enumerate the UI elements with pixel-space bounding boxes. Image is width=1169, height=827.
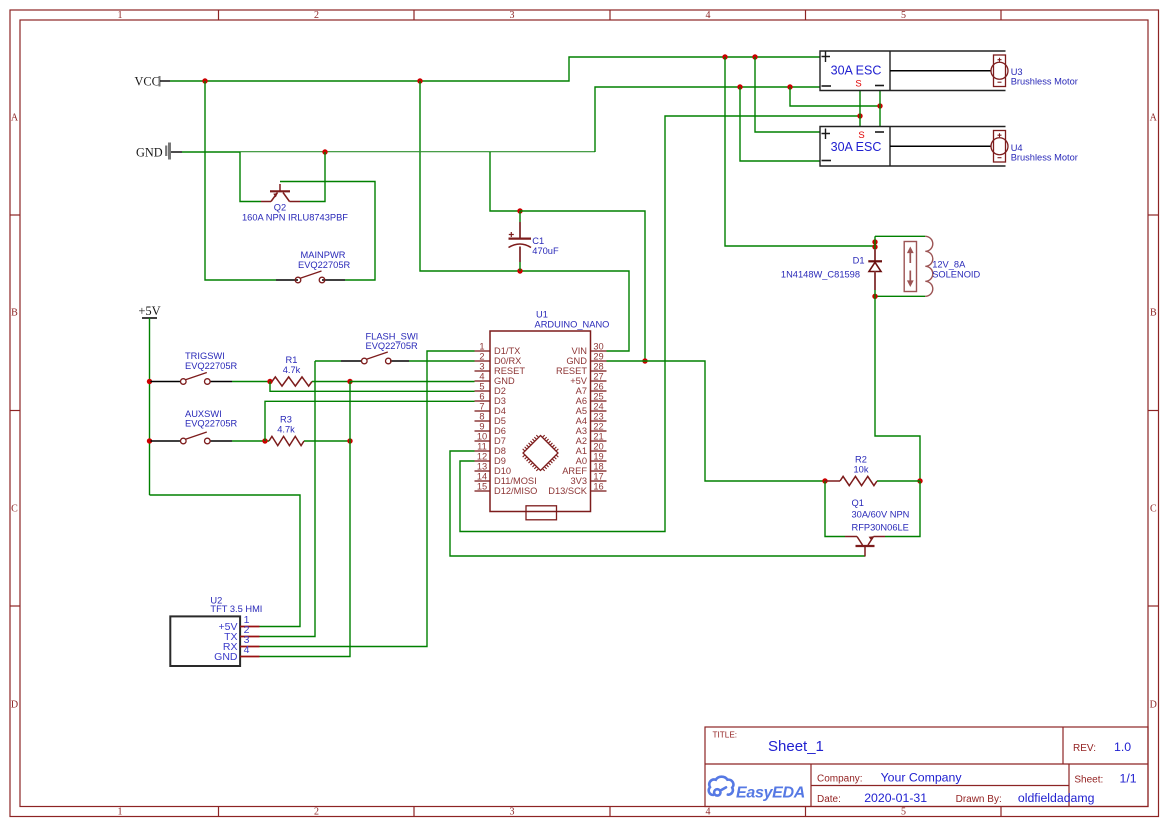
pin 18 AREF [562,462,606,477]
label C1 [532,236,559,256]
pin 28 RESET [556,362,607,377]
svg-text:GND: GND [136,146,163,160]
svg-text:A: A [1150,113,1158,124]
wire AUXSWI left stub [151,440,181,442]
svg-text:VIN: VIN [572,346,588,356]
wire VCC branch to solenoid [725,57,875,246]
svg-text:D10: D10 [494,466,511,476]
svg-text:4: 4 [479,372,484,382]
svg-text:VCC: VCC [135,75,160,89]
svg-text:RESET: RESET [556,366,587,376]
EasyEDA logo [709,777,805,802]
svg-text:3: 3 [510,10,515,21]
resistor R2 [840,455,877,486]
node node ESC2 minus branch [737,84,742,89]
svg-text:TFT 3.5 HMI: TFT 3.5 HMI [210,604,262,614]
svg-text:A3: A3 [576,426,587,436]
capacitor C1 [509,211,532,271]
wire VCC branch to ESC2 + [755,57,820,132]
svg-text:4: 4 [706,10,711,21]
svg-text:D13/SCK: D13/SCK [548,486,588,496]
svg-text:1: 1 [479,342,484,352]
wire D8 to Q1 base [450,451,865,556]
label U1 [535,310,610,330]
ESC module U6 bottom ESC [170,127,1148,807]
resistor R1 [272,355,312,386]
svg-text:R1: R1 [286,355,298,365]
pin 1 U2 +5V [219,614,260,633]
svg-text:13: 13 [477,462,487,472]
pin 11 D8 [475,442,506,457]
svg-text:5: 5 [479,382,484,392]
svg-text:11: 11 [477,442,487,452]
svg-text:D4: D4 [494,406,506,416]
svg-text:Q1: Q1 [852,498,864,508]
svg-text:U1: U1 [536,310,548,320]
svg-text:A6: A6 [576,396,587,406]
switch TRIGSWI [181,373,211,385]
node node solenoid bottom [872,294,877,299]
ESC module U5 top ESC [170,51,1148,807]
svg-text:C: C [11,504,18,515]
pin 29 GND [566,352,606,367]
svg-text:1.0: 1.0 [1114,740,1131,754]
svg-text:A5: A5 [576,406,587,416]
node VCC junction 1 [202,78,207,83]
U1 chip glyph [523,435,559,471]
pin 26 A7 [576,382,607,397]
wire VCC to ESC1 + [170,57,820,81]
svg-text:4: 4 [244,644,250,656]
svg-text:R2: R2 [855,455,867,465]
wire GND from port [182,151,240,153]
pin 13 D10 [475,462,512,477]
wire GND up to ESC row [595,87,820,152]
node node GND R3 [347,438,352,443]
svg-text:25: 25 [593,392,603,402]
svg-text:30A ESC: 30A ESC [831,64,882,78]
svg-text:R3: R3 [280,415,292,425]
svg-text:D12/MISO: D12/MISO [494,486,537,496]
svg-text:C1: C1 [532,236,544,246]
wire D3 wire [265,401,475,441]
wire GND branch ESC minus pins [790,87,880,106]
pin 10 D7 [475,432,506,447]
svg-text:6: 6 [479,392,484,402]
svg-text:RESET: RESET [494,366,525,376]
switch AUXSWI [181,432,211,444]
node node C1 top [517,208,522,213]
wire AUXSWI right stub [210,440,233,442]
wire AUXSWI to R3 [232,440,269,442]
svg-text:D8: D8 [494,446,506,456]
svg-text:10: 10 [477,432,487,442]
wire solenoid to R2 right [875,296,920,481]
node node R2 left [822,478,827,483]
pin 24 A5 [576,402,607,417]
pin 17 3V3 [570,472,606,487]
diode D1 [868,249,882,296]
pin 15 D12/MISO [475,482,538,497]
svg-text:GND: GND [494,376,515,386]
node node ESC minus branch [787,84,792,89]
svg-text:A2: A2 [576,436,587,446]
svg-text:MAINPWR: MAINPWR [301,250,346,260]
pin 3 RESET [475,362,526,377]
svg-text:28: 28 [593,362,603,372]
svg-text:S: S [855,79,861,90]
svg-text:D2: D2 [494,386,506,396]
wire Q2 base to MAINPWR [280,182,375,281]
pin 30 VIN [572,342,607,357]
wire GND branch to C1 top [490,152,520,211]
svg-text:FLASH_SWI: FLASH_SWI [366,332,419,342]
wire pin29 stub wire [607,360,646,362]
svg-text:EVQ22705R: EVQ22705R [366,341,418,351]
wire GND horizontal faded [240,151,595,153]
svg-text:19: 19 [593,452,603,462]
wire VCC to MAINPWR [205,81,276,280]
wire GND to Q2 emitter [240,152,261,202]
wire FLASH to pin2 [409,360,475,362]
svg-text:B: B [11,308,18,319]
wire ESC1 minus pin wire [879,91,881,106]
pin 22 A3 [576,422,607,437]
label solenoid [932,259,980,279]
svg-text:Brushless Motor: Brushless Motor [1011,77,1078,87]
wire R2 right to Q1 collector [885,481,920,537]
svg-text:D5: D5 [494,416,506,426]
pin 3 U2 RX [223,634,260,653]
svg-text:D1: D1 [853,256,865,266]
wire R1 right wire [312,381,350,383]
U1 usb connector [526,506,557,520]
node node D2 branch [267,379,272,384]
wire VCC to C1 bottom rail [420,81,520,271]
svg-text:18: 18 [593,462,603,472]
wire +5V to U2 pin1 [150,495,301,627]
pin 4 U2 GND [214,644,259,663]
wire FLASH right stub [390,360,409,362]
wire FLASH to U2 TX [260,361,316,637]
svg-text:+5V: +5V [138,304,160,318]
label U4 [1011,143,1078,162]
svg-text:SOLENOID: SOLENOID [932,269,980,279]
svg-text:D0/RX: D0/RX [494,356,521,366]
svg-text:oldfieldadamg: oldfieldadamg [1018,791,1095,805]
pin 19 A0 [576,452,607,467]
wire ESC2 S pin wire [859,116,861,126]
node GND junction Q2 collector [322,149,327,154]
motor U4 [890,131,1008,163]
wire R2 left pin [825,480,840,482]
svg-text:D11/MOSI: D11/MOSI [494,476,537,486]
svg-text:Q2: Q2 [274,203,286,213]
svg-text:2: 2 [314,10,319,21]
svg-text:2: 2 [314,807,319,818]
wire GND branch ESC2 lower [740,87,820,161]
svg-text:+5V: +5V [570,376,588,386]
svg-text:4.7k: 4.7k [277,424,295,434]
svg-text:AREF: AREF [562,466,587,476]
svg-text:Date:: Date: [817,794,841,805]
transistor Q2 [261,184,300,202]
svg-text:D: D [1150,700,1157,711]
wire solenoid bottom rail [875,295,925,297]
svg-text:17: 17 [593,472,603,482]
wire FLASH left wire [315,360,341,362]
node node GND pin29 [642,358,647,363]
label U3 [1011,67,1078,86]
wire R1 to pin4 GND [350,381,475,383]
label Q1 [852,498,910,533]
svg-text:Your Company: Your Company [881,770,963,784]
svg-text:14: 14 [477,472,487,482]
svg-text:D1/TX: D1/TX [494,346,520,356]
net port +5V [138,304,160,318]
wire GND pin29 to R2 [645,361,825,481]
pin 25 A6 [576,392,607,407]
svg-text:30: 30 [593,342,603,352]
wire pin1 TX to U2 RX [260,351,475,647]
wire TRIGSWI to R1 [232,381,272,383]
svg-text:30A ESC: 30A ESC [831,140,882,154]
switch MAINPWR [295,271,325,283]
node node R2 right [917,478,922,483]
svg-text:15: 15 [477,482,487,492]
net port VCC [135,75,171,89]
node node ESC2 plus branch [752,54,757,59]
svg-text:C: C [1150,504,1157,515]
svg-text:4.7k: 4.7k [283,365,301,375]
title block [705,727,1148,807]
pin 2 D0/RX [475,352,522,367]
pin 21 A2 [576,432,607,447]
svg-text:TRIGSWI: TRIGSWI [185,351,225,361]
node node GND R1 [347,379,352,384]
wire +5V rail [149,318,151,495]
svg-text:8: 8 [479,412,484,422]
svg-text:D3: D3 [494,396,506,406]
node node aux row [147,438,152,443]
pin 1 D1/TX [475,342,521,357]
wire Q2 collector to GND junction [300,152,325,202]
svg-text:A: A [11,113,19,124]
svg-text:2020-01-31: 2020-01-31 [864,791,927,805]
svg-text:5: 5 [901,807,906,818]
svg-text:A0: A0 [576,456,587,466]
svg-text:5: 5 [901,10,906,21]
node node solenoid top b [872,244,877,249]
svg-text:470uF: 470uF [532,246,559,256]
svg-text:TITLE:: TITLE: [713,731,738,740]
wire MAINPWR left stub [276,279,298,281]
wire TRIGSWI left stub [151,381,181,383]
svg-text:REV:: REV: [1073,743,1096,754]
svg-text:1/1: 1/1 [1120,772,1137,786]
svg-text:20: 20 [593,442,603,452]
svg-text:26: 26 [593,382,603,392]
label Q2 [242,203,348,223]
wire R3 right wire [304,440,350,442]
svg-text:A4: A4 [576,416,587,426]
svg-text:10k: 10k [854,464,869,474]
pin 27 +5V [570,372,606,387]
label D1 [781,256,865,280]
wire ESC1 S pin wire [859,91,861,116]
wire TRIGSWI right stub [210,381,233,383]
pin 6 D3 [475,392,506,407]
svg-text:22: 22 [593,422,603,432]
pin 12 D9 [475,452,506,467]
svg-text:Drawn By:: Drawn By: [956,794,1002,805]
svg-text:EasyEDA: EasyEDA [736,785,805,802]
svg-text:4: 4 [706,807,711,818]
svg-text:Sheet:: Sheet: [1074,775,1103,786]
svg-text:3: 3 [479,362,484,372]
svg-text:GND: GND [214,651,238,663]
motor U3 [890,55,1008,87]
node VCC junction 2 [417,78,422,83]
pin 2 U2 TX [224,624,259,643]
svg-text:B: B [1150,308,1157,319]
node node ESC minus join [877,103,882,108]
svg-text:1: 1 [118,807,123,818]
svg-text:3V3: 3V3 [570,476,587,486]
svg-text:Brushless Motor: Brushless Motor [1011,152,1078,162]
svg-text:A1: A1 [576,446,587,456]
solenoid coil [904,236,933,296]
wire D9 to ESC S [460,116,860,532]
svg-text:1N4148W_C81598: 1N4148W_C81598 [781,270,860,280]
svg-text:9: 9 [479,422,484,432]
svg-text:D: D [11,700,18,711]
svg-text:A7: A7 [576,386,587,396]
node node ESC S join [857,113,862,118]
switch FLASH_SWI [362,352,392,364]
IC U1 ARDUINO_NANO [475,310,610,520]
svg-text:EVQ22705R: EVQ22705R [185,419,237,429]
IC U2 TFT [170,596,262,666]
wire ESC2 minus pin wire [879,106,881,126]
pin 5 D2 [475,382,506,397]
node node D3 branch [262,438,267,443]
svg-text:Company:: Company: [817,773,863,784]
wire D2 wire [270,382,475,392]
net port GND [136,143,182,160]
svg-text:24: 24 [593,402,603,412]
svg-text:3: 3 [510,807,515,818]
svg-text:23: 23 [593,412,603,422]
pin 16 D13/SCK [548,482,606,497]
svg-text:12V_8A: 12V_8A [932,259,966,269]
svg-text:30A/60V NPN: 30A/60V NPN [852,510,910,520]
pin 4 GND [475,372,515,387]
svg-text:AUXSWI: AUXSWI [185,409,222,419]
wire MAINPWR right stub [322,279,345,281]
pin 9 D6 [475,422,506,437]
svg-text:27: 27 [593,372,603,382]
node node ESC1 plus branch [722,54,727,59]
svg-text:1: 1 [118,10,123,21]
svg-text:EVQ22705R: EVQ22705R [298,260,350,270]
svg-text:7: 7 [479,402,484,412]
pin 7 D4 [475,402,506,417]
resistor R3 [269,415,304,446]
label U2 [210,596,262,614]
svg-text:RFP30N06LE: RFP30N06LE [852,523,909,533]
svg-text:12: 12 [477,452,487,462]
node node C1 bottom [517,268,522,273]
node node solenoid top a [872,239,877,244]
svg-text:D6: D6 [494,426,506,436]
wire solenoid top link [874,236,876,249]
svg-text:2: 2 [479,352,484,362]
pin 20 A1 [576,442,607,457]
wire R2 left to Q1 emitter [825,481,845,537]
svg-text:EVQ22705R: EVQ22705R [185,361,237,371]
wire GND net vertical to U2 [260,382,351,657]
svg-text:ARDUINO_NANO: ARDUINO_NANO [535,320,610,330]
pin 23 A4 [576,412,607,427]
wire C1 bottom to VIN [520,271,629,351]
wire C1 top to pin29 [520,211,645,361]
svg-text:D7: D7 [494,436,506,446]
transistor Q1 [845,536,885,546]
wire FLASH left stub [341,360,362,362]
svg-text:160A NPN IRLU8743PBF: 160A NPN IRLU8743PBF [242,212,348,222]
svg-text:Sheet_1: Sheet_1 [768,738,824,755]
wire solenoid top rail [875,235,925,237]
node node trig row [147,379,152,384]
svg-text:21: 21 [593,432,603,442]
svg-text:29: 29 [593,352,603,362]
wire Q1 base wire [864,546,866,557]
svg-text:D9: D9 [494,456,506,466]
svg-text:GND: GND [566,356,587,366]
pin 8 D5 [475,412,506,427]
pin 14 D11/MOSI [475,472,537,487]
wire R2 right pin [877,480,920,482]
svg-text:16: 16 [593,482,603,492]
